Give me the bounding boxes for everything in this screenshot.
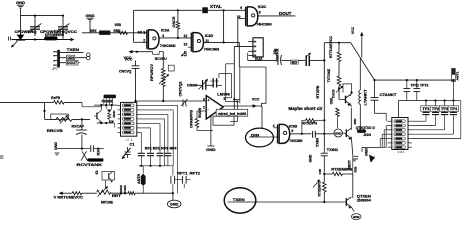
- capacitor dark: [306, 55, 309, 66]
- svg-text:XTAL: XTAL: [210, 4, 222, 9]
- svg-text:CRCVQ: CRCVQ: [119, 70, 132, 74]
- capacitor C1 variable: [122, 142, 135, 159]
- svg-text:3: 3: [203, 98, 205, 102]
- svg-text:13: 13: [184, 42, 188, 46]
- wire IC3C out DOUT: [258, 15, 296, 17]
- diode DLED: [362, 147, 375, 162]
- wire v dip top: [398, 101, 400, 118]
- DIP slots: [394, 120, 405, 149]
- svg-text:74HC86N: 74HC86N: [289, 139, 302, 143]
- svg-text:6: 6: [292, 129, 294, 133]
- svg-text:8: 8: [259, 10, 261, 14]
- svg-text:JP2: JP2: [51, 67, 59, 71]
- svg-text:TXIN: TXIN: [315, 137, 319, 147]
- svg-text:10: 10: [237, 15, 241, 19]
- capacitor CRCVQ: [124, 59, 140, 101]
- svg-text:RxFB: RxFB: [51, 96, 60, 100]
- IC receiver U1: [121, 102, 137, 136]
- svg-text:sw1: sw1: [397, 150, 404, 154]
- svg-text:RXCAP: RXCAP: [72, 124, 85, 128]
- capacitor TXIN1: [321, 148, 328, 175]
- svg-text:GND: GND: [206, 148, 216, 152]
- wire top right bend: [324, 42, 374, 80]
- diode DRXIN: [100, 31, 110, 35]
- svg-text:RFGND: RFGND: [123, 185, 127, 195]
- svg-text:RF4: RF4: [170, 147, 177, 151]
- svg-text:RRCVB: RRCVB: [47, 128, 63, 133]
- wire left stub: [0, 102, 46, 119]
- svg-text:CW: CW: [318, 169, 322, 175]
- pot RRTUNE arrow: [98, 180, 109, 197]
- DIP pins: [388, 121, 412, 147]
- wire VCC bus: [12, 38, 70, 40]
- svg-text:ANT1: ANT1: [456, 71, 460, 81]
- capacitor RXC: [82, 145, 104, 152]
- wire DOUT pin: [60, 62, 80, 64]
- coil RCVTANK: [81, 151, 104, 161]
- wire to cap: [298, 59, 305, 61]
- svg-text:GND: GND: [365, 147, 369, 156]
- svg-text:ANTR: ANTR: [137, 173, 141, 184]
- pin marks opamp: [203, 97, 226, 114]
- transistor QRX: [94, 105, 102, 124]
- svg-text:2: 2: [143, 38, 145, 42]
- capacitor RFT1: [171, 176, 175, 184]
- arrow TVS: [11, 41, 18, 48]
- svg-text:RGAIN: RGAIN: [198, 107, 202, 118]
- wire IC3D out: [204, 10, 240, 67]
- svg-text:LM386: LM386: [217, 92, 230, 97]
- wire DIP right fanout: [412, 101, 461, 139]
- svg-text:74HC86N: 74HC86N: [204, 48, 220, 52]
- svg-text:DIN: DIN: [67, 56, 74, 60]
- svg-text:RF1: RF1: [145, 147, 152, 151]
- inductor LTANKT: [359, 59, 360, 130]
- svg-text:A04: A04: [363, 133, 371, 137]
- transistor QTXEN: [345, 174, 354, 212]
- wire left branch to gate pin2: [134, 10, 147, 42]
- wire row y33: [82, 32, 147, 34]
- box trim: [168, 65, 174, 71]
- svg-text:BD: BD: [292, 60, 298, 64]
- node DOUT boxed label: [66, 60, 78, 65]
- wire cluster bottom: [97, 105, 115, 127]
- arrows under crowb: [104, 98, 113, 105]
- transistor QTXOSC dark: [356, 126, 376, 137]
- box feedback: [213, 116, 234, 125]
- wire to BD: [281, 59, 291, 61]
- wire right low bus: [399, 99, 457, 101]
- ground GND2: [86, 13, 95, 33]
- wire opamp out: [223, 104, 262, 108]
- svg-text:TF3: TF3: [441, 107, 449, 111]
- transistor QTA04T: [339, 84, 353, 107]
- IC switch slots: [122, 104, 134, 134]
- wire DIP left fanout: [380, 126, 392, 148]
- wire right top bus: [373, 79, 455, 81]
- pot RRCVB: [45, 115, 91, 124]
- labels RF1-RF4: [145, 147, 177, 151]
- op-gate IC3B 74HC86N: [278, 124, 290, 143]
- wire bottom bus: [65, 190, 174, 195]
- capacitor RFT2: [182, 176, 186, 184]
- wire pin6: [225, 100, 238, 121]
- IC pins: [118, 105, 140, 132]
- op-gate IC3D 74HC86N: [191, 33, 203, 52]
- svg-text:+: +: [208, 99, 210, 103]
- resistor mid x337: [336, 108, 339, 128]
- resistor chain x339: [337, 43, 341, 100]
- wire stub left edge: [9, 37, 12, 41]
- wire pin10 loop: [238, 19, 246, 47]
- arrow net stub: [181, 52, 186, 57]
- wire dip bottom bus: [362, 146, 386, 148]
- capacitor TFT2: [413, 80, 420, 100]
- wire IC3B out: [290, 133, 312, 135]
- wire din drop: [261, 106, 263, 129]
- arrow VCC left: [59, 191, 63, 195]
- svg-text:VCC: VCC: [125, 56, 133, 61]
- svg-text:VCC: VCC: [252, 97, 260, 101]
- svg-text:CRCV: CRCV: [187, 84, 198, 88]
- svg-text:CAOS: CAOS: [331, 89, 335, 98]
- svg-text:9: 9: [240, 6, 242, 10]
- op-gate IC3A 74HC86N: [147, 30, 159, 49]
- capacitor CRCVQ2: [179, 81, 188, 106]
- resistor RTXENB: [323, 172, 353, 175]
- pin 4: [273, 124, 278, 128]
- svg-text:TFT1 TFT2: TFT1 TFT2: [411, 84, 429, 88]
- labels RFT1 RFT2: [177, 171, 200, 175]
- capacitor RF1-4: [138, 153, 172, 166]
- wire cluster top: [94, 104, 118, 106]
- wire dip top link: [375, 113, 387, 121]
- svg-text:1O: 1O: [183, 50, 187, 56]
- svg-text:CTANKT: CTANKT: [380, 92, 398, 97]
- svg-text:RXOSC: RXOSC: [112, 110, 116, 117]
- wire pin13 input: [188, 46, 192, 48]
- capacitor C out: [206, 78, 222, 87]
- svg-text:GND: GND: [353, 215, 360, 219]
- inductor ferrite bead: [44, 36, 57, 40]
- svg-text:RCVPU: RCVPU: [155, 57, 167, 61]
- wire power top bus: [21, 15, 65, 17]
- ground GND ellipse: [167, 193, 181, 208]
- op-amp LM386: [206, 96, 223, 119]
- node DIN boxed label: [67, 55, 75, 60]
- wire minus loop: [195, 111, 213, 131]
- svg-text:RPURCV: RPURCV: [150, 63, 154, 81]
- capacitor CTANKT: [371, 80, 379, 113]
- svg-text:RXC: RXC: [97, 147, 101, 156]
- component CROWB dark: [104, 95, 117, 99]
- ground qtxen ellipse: [351, 214, 361, 220]
- svg-text:TXIN1: TXIN1: [327, 148, 339, 152]
- svg-text:GND: GND: [16, 0, 25, 5]
- svg-text:VBB: VBB: [115, 23, 122, 27]
- wire cap drops: [21, 16, 64, 35]
- pot arrow rpurcv: [159, 74, 169, 84]
- diode cluster: [107, 105, 112, 123]
- svg-text:OPAMPFB: OPAMPFB: [190, 109, 194, 128]
- svg-text:GND: GND: [309, 154, 313, 163]
- wire txen line: [228, 201, 345, 203]
- svg-text:DRX: DRX: [91, 29, 98, 33]
- svg-text:TXTONE: TXTONE: [327, 68, 331, 82]
- svg-text:74HC86N: 74HC86N: [160, 44, 176, 48]
- wire right edge v: [456, 100, 461, 102]
- svg-text:GND: GND: [170, 203, 179, 207]
- capacitor CRCV: [193, 79, 208, 90]
- svg-text:RF2: RF2: [153, 147, 160, 151]
- capacitor left edge small: [353, 156, 359, 161]
- node wired_txd_in386 box: [216, 109, 248, 116]
- svg-text:WD: WD: [353, 118, 357, 125]
- svg-text:4: 4: [273, 124, 275, 128]
- connector circles: [87, 53, 91, 57]
- svg-text:CPOWERQ: CPOWERQ: [15, 29, 37, 34]
- svg-text:2: 2: [203, 106, 205, 110]
- wire long vertical: [323, 43, 325, 148]
- label vert rrtune pair: [119, 185, 127, 195]
- capacitor TXIN: [313, 131, 335, 138]
- wire gnd drop opamp: [210, 116, 212, 147]
- svg-text:wired_txd_in386: wired_txd_in386: [217, 112, 246, 116]
- wire opamp plus bus: [134, 100, 206, 102]
- wire TXEN pin: [60, 51, 84, 53]
- resistor ANTR: [137, 166, 145, 193]
- svg-text:LTANKT: LTANKT: [364, 88, 368, 105]
- arrow VCC small: [307, 53, 312, 57]
- wire IC fanout: [140, 105, 178, 193]
- diode DPOWER: [16, 31, 25, 40]
- node TF1-TF4 boxed caps: [421, 101, 459, 116]
- svg-text:2N3904: 2N3904: [357, 198, 371, 202]
- svg-text:RFT2: RFT2: [190, 171, 201, 175]
- wire top bus: [134, 9, 246, 11]
- component RBDT box: [452, 69, 460, 101]
- svg-text:C#: C#: [110, 119, 115, 123]
- resistor RBB: [119, 31, 128, 34]
- svg-text:RTXENPD: RTXENPD: [318, 180, 322, 196]
- svg-text:TXEN: TXEN: [67, 47, 80, 52]
- wire opamp vcc pins: [219, 64, 234, 102]
- svg-text:QTXQTXO D: QTXQTXO D: [356, 126, 376, 130]
- crystal XTAL: [202, 7, 208, 13]
- capacitor TFT1: [403, 80, 410, 100]
- node DIN ellipse: [246, 128, 274, 147]
- svg-text:TF4: TF4: [450, 107, 458, 111]
- capacitor RXCAP: [76, 118, 87, 148]
- wire din to gate: [249, 136, 279, 138]
- node BD boxed: [291, 60, 298, 64]
- svg-text:12: 12: [184, 34, 188, 38]
- svg-text:3: 3: [162, 34, 164, 38]
- svg-text:CRCVQ2: CRCVQ2: [179, 81, 183, 96]
- pins marks osc: [254, 41, 257, 56]
- svg-text:C1: C1: [130, 142, 135, 146]
- svg-text:TXEN: TXEN: [233, 197, 245, 202]
- wire stub left edge2: [0, 156, 4, 158]
- capacitor 15p: [278, 55, 282, 65]
- svg-text:RRTUNE: RRTUNE: [101, 201, 113, 205]
- arrow VCC: [71, 38, 75, 42]
- oscillator module XU: [253, 38, 263, 57]
- wire IC3A out: [159, 37, 191, 39]
- svg-text:RFT1: RFT1: [177, 171, 188, 175]
- transistor QRT in box: [109, 172, 113, 183]
- ground opamp: [206, 146, 216, 152]
- wire caps bus: [139, 165, 173, 176]
- svg-text:RF3: RF3: [161, 147, 168, 151]
- DIP switch SW1: [392, 118, 408, 150]
- connector JP2: [57, 50, 60, 68]
- label rxosc smudge: [110, 110, 116, 123]
- transistor QTX2: [342, 108, 352, 155]
- resistor OSCR: [176, 10, 179, 38]
- svg-text:GND: GND: [335, 131, 342, 135]
- box rrtune: [102, 172, 115, 181]
- arrow RCVPU VCC: [129, 50, 164, 54]
- svg-text:-: -: [208, 108, 209, 112]
- svg-text:RBDT: RBDT: [348, 160, 352, 170]
- svg-text:GND: GND: [86, 13, 95, 18]
- pin 1 input: [144, 31, 147, 34]
- svg-text:RTXDPH: RTXDPH: [302, 122, 317, 126]
- svg-text:PROWB: PROWB: [102, 99, 113, 103]
- wire h into box: [233, 98, 240, 100]
- svg-text:V RRTUNEVCC: V RRTUNEVCC: [54, 195, 84, 199]
- arrow vcc right: [360, 32, 364, 58]
- op-gate IC3C 74HC86N: [246, 7, 258, 26]
- capacitor CPOWERQ: [29, 24, 42, 37]
- resistor RTXDPH loop: [302, 119, 326, 134]
- wire osc out: [248, 53, 277, 61]
- svg-text:GND: GND: [330, 97, 334, 104]
- svg-text:DOUT: DOUT: [279, 11, 292, 16]
- pot arrow ttone: [336, 86, 343, 93]
- box module outline: [240, 67, 266, 107]
- node TXEN ellipse: [224, 188, 256, 213]
- svg-text:DPOWERHI: DPOWERHI: [45, 33, 64, 37]
- node oval GND: [334, 129, 342, 137]
- svg-text:OSCR: OSCR: [172, 16, 176, 27]
- wire rft links: [173, 180, 191, 194]
- svg-text:15p: 15p: [273, 49, 277, 55]
- svg-text:VCC: VCC: [351, 26, 355, 34]
- ground GND top-left: [16, 0, 25, 15]
- svg-text:IC3D: IC3D: [205, 34, 214, 38]
- svg-text:74HC86N: 74HC86N: [256, 22, 272, 26]
- svg-text:Maybe short cir: Maybe short cir: [288, 106, 322, 111]
- svg-text:RTTUAEVCC: RTTUAEVCC: [329, 35, 333, 58]
- wire DIN pin: [60, 57, 87, 59]
- svg-text:DOUT: DOUT: [67, 61, 78, 65]
- svg-text:IC3A: IC3A: [161, 28, 170, 32]
- ground rx vert: [54, 142, 83, 155]
- svg-text:RTXFB: RTXFB: [316, 85, 320, 99]
- svg-text:RCVTANK: RCVTANK: [77, 162, 103, 167]
- svg-text:IC3B: IC3B: [289, 125, 298, 129]
- svg-text:TF2: TF2: [432, 107, 440, 111]
- svg-text:IC3C: IC3C: [258, 5, 267, 9]
- wire to vertical: [309, 59, 324, 61]
- wire rxfb net: [45, 101, 103, 107]
- resistor RPURCV: [162, 52, 166, 101]
- resistor RBDT vert: [348, 155, 353, 174]
- capacitor CPOWERHIQ: [57, 24, 70, 40]
- svg-text:TF1: TF1: [422, 107, 430, 111]
- box RRCVB loop: [51, 114, 69, 119]
- pot RTXENPD: [313, 174, 326, 203]
